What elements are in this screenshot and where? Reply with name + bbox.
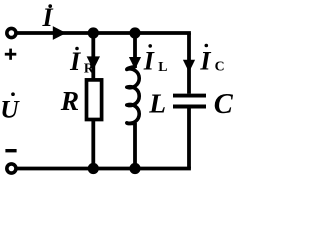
arrow I_L <box>129 57 141 69</box>
wire L branch vertical <box>133 33 137 68</box>
svg-text:L: L <box>158 59 167 74</box>
wire top horizontal <box>17 31 191 35</box>
inductor L coil <box>127 67 139 124</box>
terminal bottom-left <box>7 164 16 173</box>
arrow I on top wire <box>53 26 66 40</box>
capacitor C plates <box>173 94 206 98</box>
wire R branch vertical <box>91 33 95 169</box>
svg-text:R: R <box>60 85 79 116</box>
terminal top-left <box>7 28 16 37</box>
svg-text:I: I <box>199 46 211 75</box>
wire bottom horizontal <box>17 167 191 171</box>
svg-text:I: I <box>42 3 54 32</box>
svg-text:I: I <box>143 46 155 75</box>
svg-text:I: I <box>69 47 81 76</box>
resistor R <box>87 80 102 120</box>
svg-text:R: R <box>84 60 95 75</box>
wire C branch vertical <box>187 33 191 94</box>
svg-text:U: U <box>0 95 20 124</box>
svg-text:L: L <box>148 88 166 119</box>
arrow I_R <box>87 56 100 70</box>
label minus <box>5 149 16 152</box>
svg-text:C: C <box>215 58 225 73</box>
node junction top R <box>88 27 99 38</box>
label plus <box>5 53 16 56</box>
node junction bottom L <box>129 163 140 174</box>
node junction top L <box>129 27 140 38</box>
svg-text:C: C <box>214 89 234 120</box>
node junction bottom R <box>88 163 99 174</box>
arrow I_C <box>183 60 195 72</box>
